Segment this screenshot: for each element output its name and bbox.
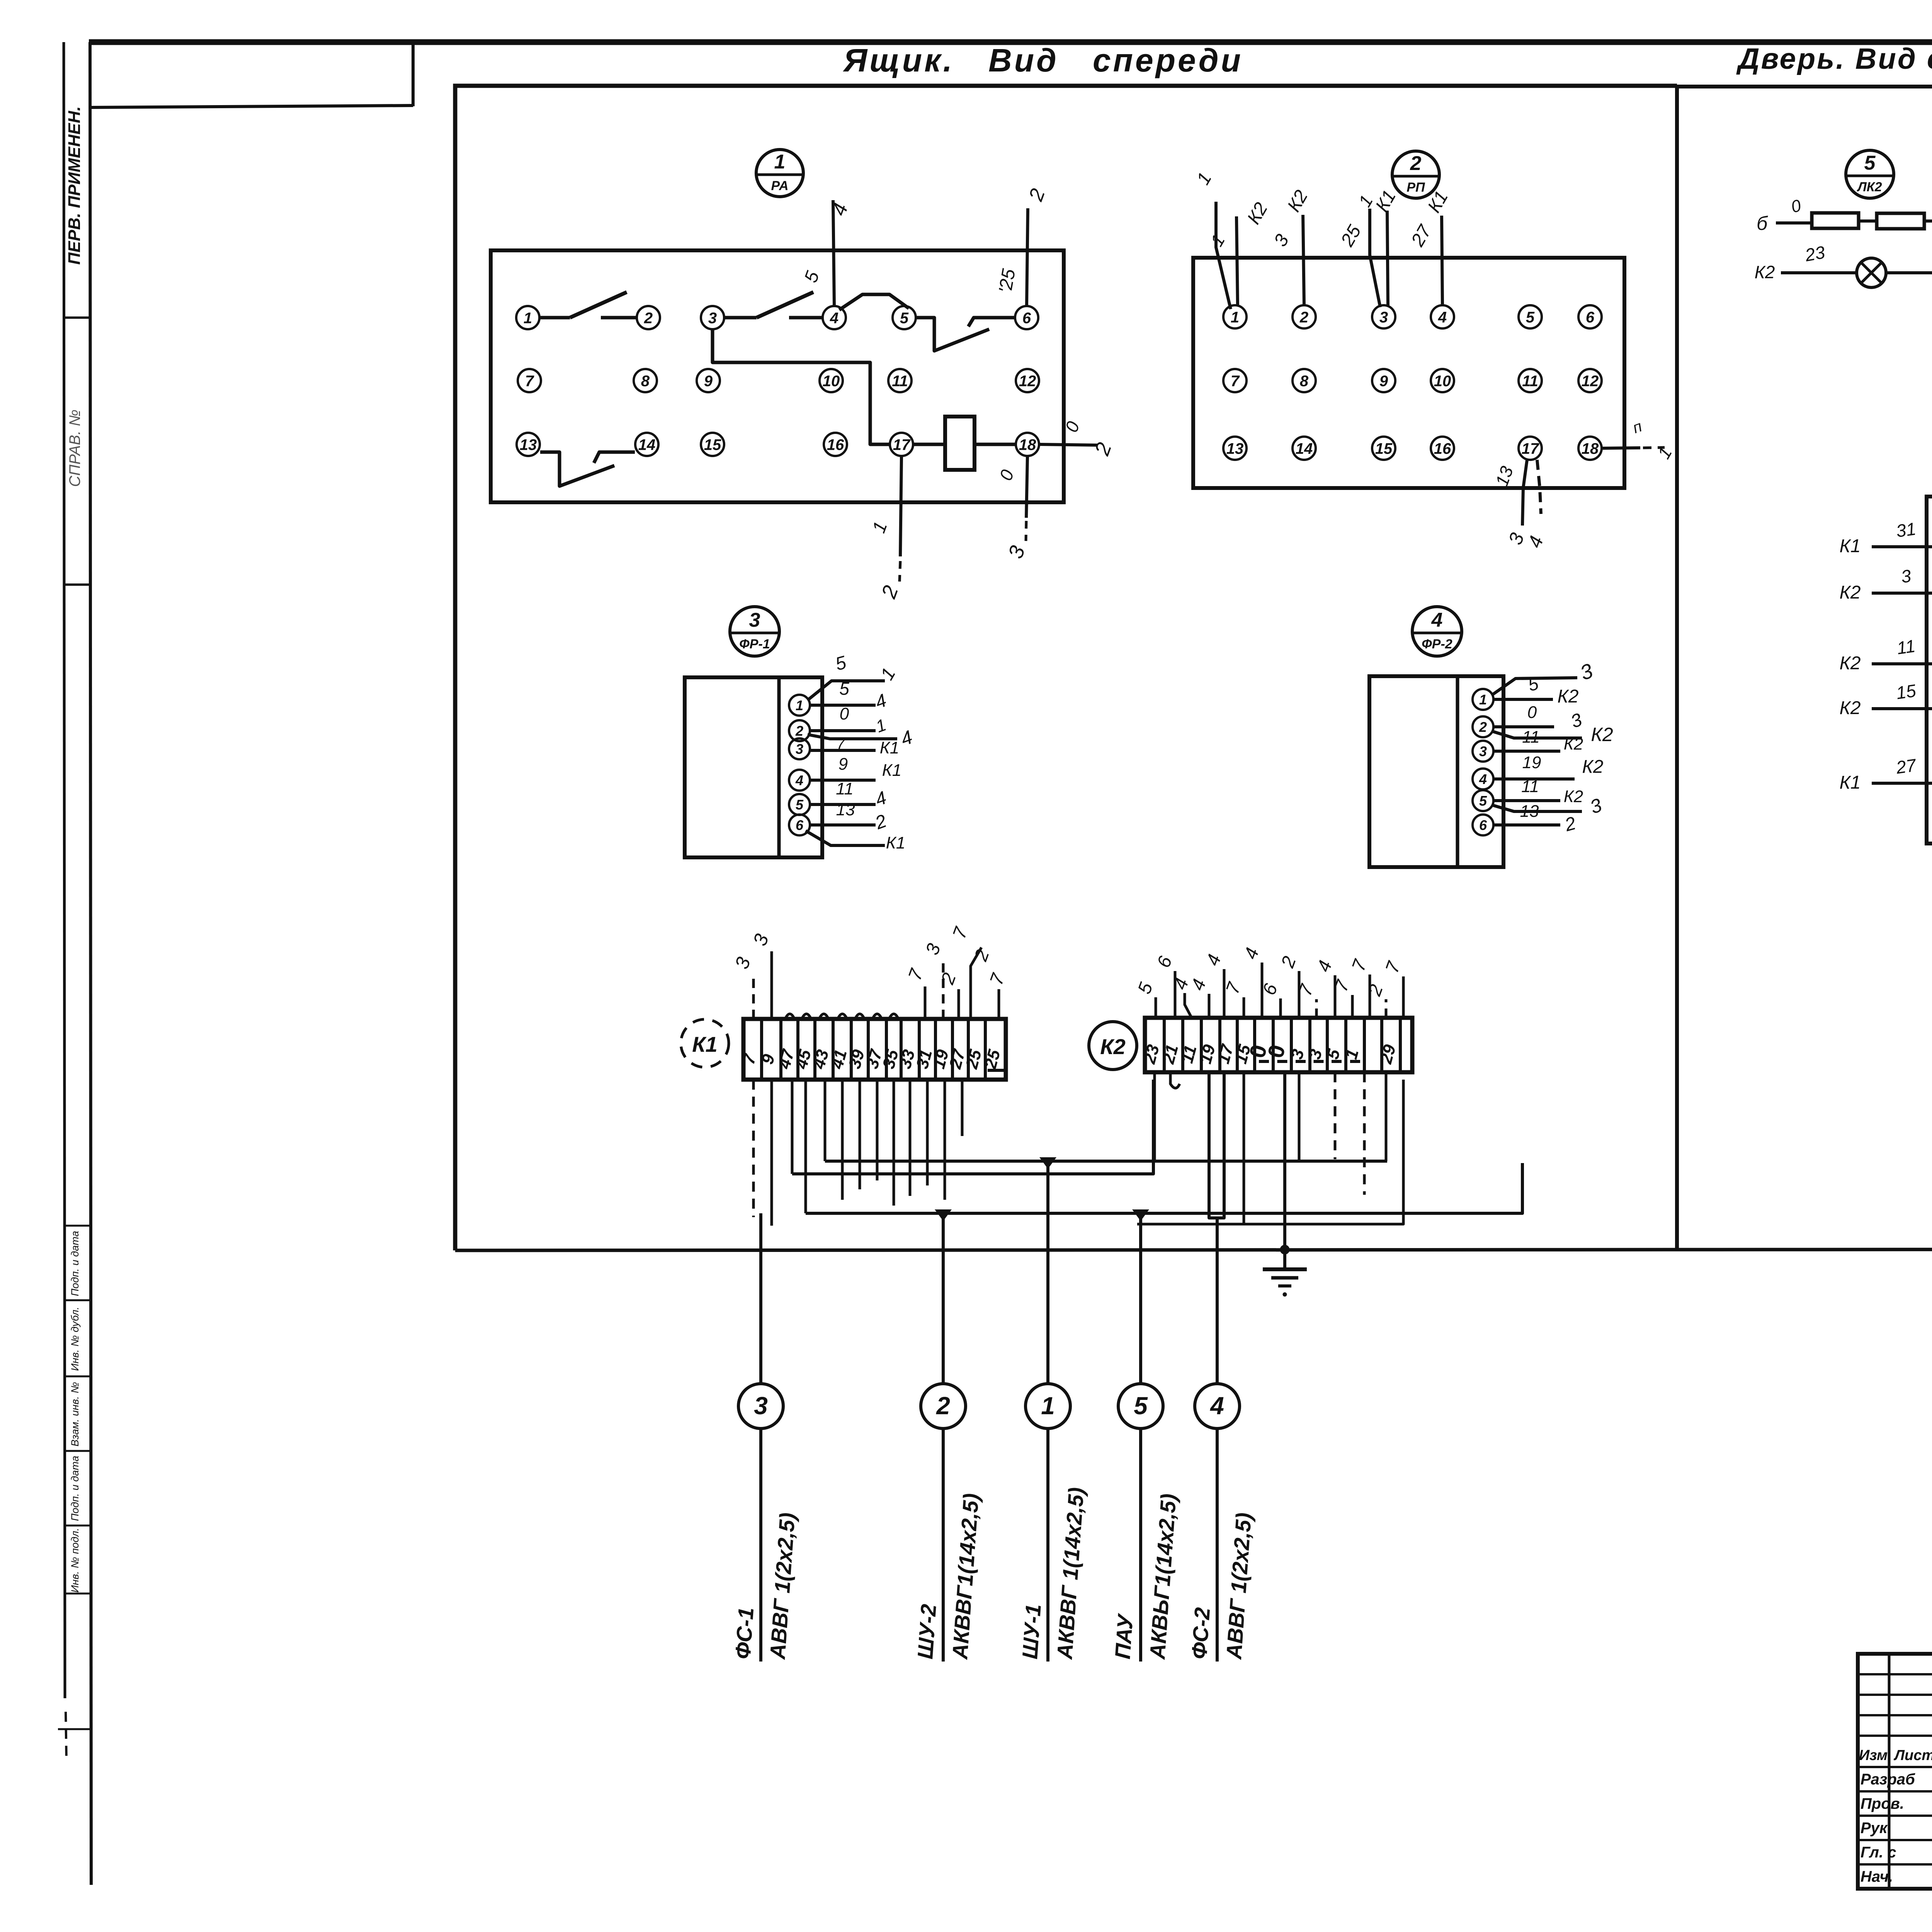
terminal strip К2 id circle [1089,1022,1137,1070]
ground symbol [1263,1267,1307,1271]
svg-text:7: 7 [525,372,534,389]
wire [1859,219,1877,223]
cable circle 5 [1118,1384,1163,1429]
svg-text:2: 2 [795,723,803,739]
wire down [1886,221,1932,273]
svg-text:ЛК2: ЛК2 [1856,180,1882,194]
svg-text:К2: К2 [1100,1034,1126,1059]
divider between box and door views [1675,86,1679,1250]
svg-text:К1: К1 [1840,536,1861,556]
svg-text:16: 16 [1434,440,1451,457]
wire pin 17 down, node 1/2 [900,456,901,556]
harness bus B [792,1080,1153,1174]
svg-text:ШУ-1: ШУ-1 [1017,1603,1046,1660]
КУ row pins 8-7 [1872,707,1932,710]
ФР-2 body [1369,676,1503,867]
svg-text:15: 15 [1895,680,1917,703]
component id circle 2/РП [1392,151,1439,198]
relay РА outline [491,250,1064,502]
К2 strip body [1145,1018,1412,1072]
wires into РП pin 1, nodes 1 / 1 К2 [1216,202,1231,309]
cable circle 4 [1195,1384,1240,1429]
svg-text:РП: РП [1406,180,1425,195]
wire pin3 to pin17 [713,330,889,444]
svg-text:4: 4 [1479,771,1487,787]
svg-text:К2: К2 [1591,724,1613,745]
РА relay coil [913,443,945,446]
svg-text:К1: К1 [882,761,901,780]
svg-text:Взам. инв. №: Взам. инв. № [69,1382,81,1447]
ФР-1 top wire, node 5/1 [808,681,885,700]
svg-text:3: 3 [754,1392,768,1420]
svg-text:К2: К2 [1840,582,1861,603]
svg-text:18: 18 [1019,436,1036,453]
lower stamp boxes [64,1225,90,1227]
left outer stamp column line [64,42,65,1698]
svg-text:Лист: Лист [1893,1747,1932,1764]
svg-text:11: 11 [1522,372,1538,389]
svg-text:6: 6 [1586,309,1595,326]
svg-text:К2: К2 [1840,698,1861,718]
svg-text:17: 17 [893,436,911,453]
wire pin 18 down, node 0/3 [1026,456,1027,518]
svg-text:Разраб: Разраб [1861,1771,1915,1788]
ФР-2 terminals 1-6 [1473,689,1493,710]
svg-text:12: 12 [1019,372,1036,389]
К1 last cell mark [988,1069,1004,1072]
ЛК2 resistor R2 [1877,213,1924,229]
svg-text:27: 27 [1895,755,1918,778]
svg-text:4: 4 [1438,309,1447,326]
ФР-2 pin6 wire, node 13/2 [1493,823,1560,827]
К1 top stub node 7 [998,989,1000,1019]
svg-text:Ящик. Вид спереди: Ящик. Вид спереди [843,42,1243,78]
svg-text:1: 1 [1231,309,1239,326]
svg-text:К2: К2 [1564,787,1583,806]
svg-text:23: 23 [1803,242,1827,265]
svg-text:4: 4 [830,310,838,327]
svg-text:5: 5 [1864,152,1876,174]
svg-text:2: 2 [1299,309,1308,326]
svg-text:Пров.: Пров. [1861,1795,1904,1812]
svg-text:10: 10 [1434,372,1451,389]
К1 top hooks [785,1014,794,1019]
svg-text:Изм: Изм [1859,1747,1888,1764]
ФР-1 terminal column divider [777,677,781,857]
svg-text:ШУ-2: ШУ-2 [913,1603,941,1660]
svg-text:17: 17 [1522,440,1539,457]
ФР-2 pin5 second wire, node 3 [1492,805,1582,811]
ФР-1 pin1 wire, node 5/4 [810,704,876,707]
svg-text:19: 19 [1522,753,1541,772]
wire from pin 4 up, node 4 [833,200,834,306]
page top border [89,39,1932,45]
svg-text:К1: К1 [886,833,905,852]
cable ПАУ drop wire [1139,1213,1142,1384]
ФР-2 pin4 wire, node 19/К2 [1493,777,1575,781]
svg-text:1: 1 [796,697,803,713]
svg-text:Подп. и дата: Подп. и дата [69,1456,81,1521]
svg-text:Рук.: Рук. [1861,1820,1891,1837]
left stamp dividers [64,316,90,319]
svg-text:5: 5 [796,797,804,813]
ЛК2 resistor R1 [1812,213,1859,228]
junction on bus C [935,1209,952,1221]
ФР-1 terminals 1-6 [789,695,810,716]
relay РП outline [1193,258,1624,488]
svg-text:РА: РА [771,179,788,193]
РП terminals row 2 (pins 7-12) [1223,369,1247,392]
ФР-2 pin3 wire, node 11/К2 [1493,750,1560,753]
svg-text:5: 5 [839,679,849,699]
svg-text:13: 13 [1226,440,1244,457]
ФР-1 pin6 second wire, node К1 [806,831,885,845]
svg-text:11: 11 [892,372,908,389]
title block outer [1858,1654,1932,1889]
svg-text:9: 9 [704,372,713,389]
svg-text:'25: '25 [995,267,1019,295]
svg-text:ФС-1: ФС-1 [730,1607,758,1660]
ФР-1 pin2 wire, node 0/1 [810,729,876,732]
svg-text:3: 3 [796,741,803,757]
ФР-2 top wire, node 3 [1492,678,1577,695]
svg-text:14: 14 [1296,440,1313,457]
cable line below [759,1429,762,1662]
wire into РП pin 4, node 27 К1 [1442,216,1442,305]
svg-text:Инв. № дубл.: Инв. № дубл. [69,1307,81,1371]
svg-text:8: 8 [641,372,650,389]
svg-text:СПРАВ. №: СПРАВ. № [66,410,83,487]
К1 top stub node 3 (dashed) [752,974,755,1019]
wire pin 18 right, node 0/2 [1039,444,1097,445]
pair merge into cable 4 drop [1209,1072,1224,1218]
svg-text:3: 3 [749,609,760,631]
svg-text:К2: К2 [1755,262,1775,282]
svg-text:10: 10 [823,372,840,389]
harness bus C [806,1163,1522,1213]
svg-text:2: 2 [1479,719,1487,735]
cable ШУ-1 drop wire [1046,1161,1049,1384]
svg-text:ФР-1: ФР-1 [739,637,770,651]
ФР-1 pin5 wire, node 11/4 [810,803,876,806]
svg-text:6: 6 [796,817,804,833]
КУ row pins 6-5 [1872,662,1932,665]
ФР-1 body [685,677,822,857]
bridge wire 4-5 [839,294,909,310]
ground wire [1283,1072,1286,1269]
svg-text:К2: К2 [1558,686,1579,707]
svg-text:6: 6 [1022,310,1031,327]
КУ row pins 4-3 [1872,592,1932,595]
wire into РП pin 2, node 3 К2 [1303,215,1304,305]
svg-text:ПАУ: ПАУ [1110,1612,1138,1660]
svg-text:11: 11 [1522,728,1540,747]
К1 top stub node 7 [924,986,927,1019]
ФР-1 pin2 second wire, node 4 [808,735,897,739]
svg-text:4: 4 [1431,609,1443,631]
cable line below [1139,1429,1142,1662]
terminal strip К1 id circle [681,1019,729,1067]
svg-text:5: 5 [1134,1392,1148,1420]
svg-text:ФС-2: ФС-2 [1187,1607,1214,1660]
cable circle 3 [738,1384,783,1429]
cable ФС-2 drop wire [1216,1218,1219,1384]
svg-text:ФР-2: ФР-2 [1422,637,1452,651]
РА contact 1-2 [540,316,570,320]
left frame edge [90,42,91,1885]
junction on bus A [1039,1157,1056,1169]
svg-text:4: 4 [1209,1392,1224,1420]
ЛК2 lamp [1857,258,1886,287]
svg-text:12: 12 [1582,372,1599,389]
svg-text:7: 7 [1231,372,1240,389]
title block columns left table [1888,1654,1891,1889]
К1 harness comb [752,1080,755,1217]
small hook under К2 cell2 [1170,1072,1180,1088]
К2 cell dividers [1163,1018,1166,1072]
КУ body [1927,497,1932,844]
svg-text:16: 16 [827,436,844,453]
svg-text:Нач.: Нач. [1861,1868,1893,1885]
svg-text:11: 11 [1896,636,1917,658]
ФР-2 pin1 wire, node 5/К2 [1493,698,1553,701]
ЛК2 wire node К2/23 [1781,271,1857,274]
К2 harness below [1153,1072,1156,1161]
КУ row pins 10-9 [1872,782,1932,785]
svg-text:1: 1 [524,310,532,327]
svg-text:5: 5 [1526,309,1535,326]
svg-text:15: 15 [1375,440,1393,457]
svg-text:б: б [1757,213,1768,234]
component id circle 4/ФР-2 [1412,607,1462,656]
svg-text:31: 31 [1895,519,1917,541]
svg-text:5: 5 [900,310,909,327]
РА contact 5-6 [916,318,989,351]
cable line below [942,1429,945,1662]
К2 lower tick marks [1259,1060,1269,1063]
ЛК2 wire node б/0 [1776,221,1812,224]
svg-text:Подп. и дата: Подп. и дата [69,1231,81,1296]
svg-text:2: 2 [644,310,653,327]
cable ШУ-2 drop wire [942,1213,945,1384]
svg-text:0: 0 [840,704,849,723]
svg-text:18: 18 [1582,440,1599,457]
РА terminals row 1 (pins 1-6) [516,306,539,329]
РА terminals row 3 (pins 13-18) [517,433,540,456]
junction dot on box bottom [1280,1245,1289,1254]
ФР-1 pin6 wire, node 13/2 [810,823,876,827]
К1 top stub node 3 dashed [942,961,945,1019]
svg-text:13: 13 [1520,802,1539,821]
ФР-1 pin4 wire, node 9/К1 [810,779,876,782]
ФР-2 terminal column divider [1456,676,1459,867]
К1 top stub node 2/7 diag [971,947,981,1019]
left frame dashes bottom [58,1728,90,1730]
ФР-2 pin2 second wire, node К2 [1492,731,1582,738]
svg-text:ПЕРВ. ПРИМЕНЕН.: ПЕРВ. ПРИМЕНЕН. [65,106,84,265]
К1 top stub node 3 [770,951,773,1019]
svg-text:К1: К1 [880,738,899,757]
wire РП pin 18 right, node П 1 [1602,448,1640,448]
svg-text:8: 8 [1300,372,1309,389]
svg-text:Дверь. Вид со стороны монтажа.: Дверь. Вид со стороны монтажа. [1736,43,1932,75]
svg-text:К1: К1 [1840,772,1861,793]
ФР-2 pin5 wire, node 11/К2 [1493,799,1560,802]
wires below К2 [1243,1072,1245,1224]
cable line below [1216,1429,1219,1662]
svg-text:К1: К1 [692,1032,718,1056]
РА contact 3-4 [724,316,757,320]
ФР-2 pin2 wire, node 0/3 [1493,725,1554,728]
РП terminals row 3 (pins 13-18) [1223,437,1247,460]
title block left rows [1858,1673,1932,1675]
РП terminals row 1 (pins 1-6) [1223,305,1247,328]
cable circle 1 [1026,1384,1070,1429]
svg-text:К2: К2 [1564,735,1583,753]
ФР-1 pin3 wire, node 7/К1 [810,749,876,752]
К2 top stubs with wire numbers [1155,997,1157,1018]
cable ФС-1 drop wire [759,1213,762,1384]
svg-text:9: 9 [1379,372,1388,389]
svg-text:13: 13 [520,436,537,453]
РА contact 13-14 [540,452,614,486]
harness dash bus D [1137,1080,1403,1224]
svg-text:15: 15 [704,436,721,453]
component id circle 3/ФР-1 [730,607,779,656]
cable circle 2 [921,1384,966,1429]
component id circle 1/РА [756,150,803,197]
enclosure box (Ящик) [455,86,1677,1250]
svg-text:Гл. с: Гл. с [1861,1844,1896,1861]
КУ row pins 2-1 [1872,545,1932,548]
wires РП pin 17 down, nodes 13 3 4 [1522,460,1527,526]
svg-text:Инв. № подл.: Инв. № подл. [69,1528,81,1593]
РА terminals row 2 (pins 7-12) [518,369,541,392]
svg-text:5: 5 [1479,793,1487,809]
К1 strip body [743,1019,1006,1080]
svg-text:14: 14 [638,436,656,453]
svg-text:1: 1 [1479,692,1487,707]
svg-text:К2: К2 [1582,757,1604,777]
svg-text:4: 4 [795,772,803,788]
svg-text:2: 2 [1410,152,1422,175]
wires into РП pin 3, nodes 25 1 К1 [1370,209,1380,307]
svg-text:11: 11 [1521,777,1539,796]
svg-text:0: 0 [1527,703,1537,722]
wire from pin 6 up, node 2/25 [1027,208,1028,306]
cable line below [1046,1429,1049,1662]
svg-text:1: 1 [774,151,786,173]
svg-text:3: 3 [708,310,717,327]
К1 top stub node 2 [957,989,960,1019]
svg-text:7: 7 [837,736,845,752]
component id circle 5/ЛК2 [1846,150,1894,198]
svg-text:13: 13 [836,800,855,819]
svg-text:11: 11 [836,779,854,798]
top-left reference box [91,105,413,107]
svg-text:3: 3 [1379,309,1388,326]
К1 cell dividers [760,1019,763,1080]
box bottom edge [455,1249,1932,1250]
door box (Дверь) top and right [1677,87,1932,1249]
svg-text:К2: К2 [1840,653,1861,673]
svg-text:6: 6 [1479,817,1487,833]
harness bus A [825,1160,1387,1163]
svg-text:1: 1 [1041,1392,1055,1420]
svg-text:9: 9 [838,755,848,774]
svg-text:2: 2 [936,1392,950,1420]
svg-text:3: 3 [1479,743,1487,759]
